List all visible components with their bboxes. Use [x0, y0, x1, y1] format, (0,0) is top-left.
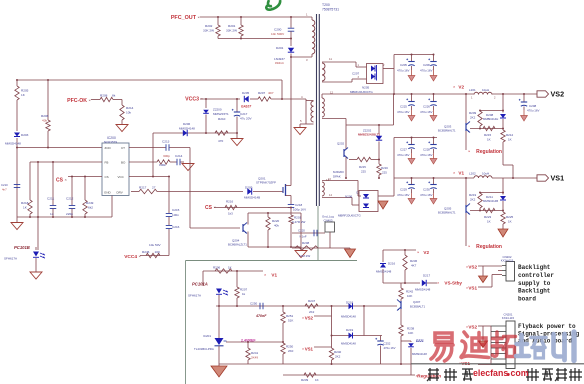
svg-text:N206: N206: [345, 195, 353, 199]
svg-text:MMSD4148: MMSD4148: [376, 270, 392, 274]
svg-text:#9414: #9414: [275, 61, 284, 65]
svg-text:0.47R 2W: 0.47R 2W: [292, 220, 306, 224]
svg-text:C230: C230: [423, 188, 430, 192]
svg-text:V1: V1: [458, 171, 464, 176]
svg-text:R246: R246: [142, 250, 150, 254]
svg-text:6k2: 6k2: [88, 206, 93, 210]
svg-text:27: 27: [152, 186, 156, 190]
svg-text:R214: R214: [126, 106, 134, 110]
svg-text:R201: R201: [294, 216, 302, 220]
svg-text:MMSD4148: MMSD4148: [341, 342, 356, 346]
svg-text:CS: CS: [56, 178, 64, 184]
svg-text:IC201: IC201: [203, 334, 211, 338]
svg-text:R206: R206: [213, 266, 221, 270]
svg-text:R205: R205: [21, 89, 29, 93]
svg-text:40k: 40k: [274, 224, 279, 228]
svg-text:100: 100: [155, 250, 160, 254]
svg-text:Regulation: Regulation: [476, 149, 502, 155]
svg-text:D218: D218: [346, 301, 354, 305]
svg-text:Q207: Q207: [413, 300, 421, 304]
svg-text:51K: 51K: [288, 319, 293, 323]
svg-text:BC858ALT1: BC858ALT1: [410, 305, 425, 309]
svg-text:R208: R208: [302, 241, 310, 245]
svg-text:KX24-115: KX24-115: [502, 316, 515, 320]
svg-text:10u 50V: 10u 50V: [149, 243, 161, 247]
svg-text:MMBD414H: MMBD414H: [483, 117, 498, 121]
svg-text:R202: R202: [205, 24, 213, 28]
svg-text:C252: C252: [384, 342, 391, 346]
svg-text:470nF: 470nF: [255, 314, 267, 318]
svg-text:L201: L201: [469, 88, 476, 92]
svg-text:10K: 10K: [407, 294, 412, 298]
svg-text:100n: 100n: [172, 213, 179, 217]
svg-text:PC101B: PC101B: [14, 245, 30, 250]
svg-text:VS-Stby: VS-Stby: [444, 281, 462, 286]
svg-text:Regulation: Regulation: [476, 244, 502, 250]
svg-text:GND: GND: [104, 191, 112, 195]
svg-text:R208: R208: [100, 94, 108, 98]
svg-text:MMSD4148: MMSD4148: [341, 315, 356, 319]
svg-text:8k: 8k: [112, 94, 116, 98]
svg-text:VS2: VS2: [305, 316, 314, 321]
svg-text:×: ×: [302, 347, 304, 351]
svg-text:43k: 43k: [42, 119, 47, 123]
svg-text:CT: CT: [121, 146, 125, 150]
svg-text:2K2: 2K2: [309, 310, 315, 314]
svg-text:R215: R215: [484, 133, 492, 137]
svg-text:BC868ALZLT1: BC868ALZLT1: [228, 243, 247, 247]
svg-text:VCC: VCC: [118, 175, 125, 179]
svg-text:C229: C229: [400, 188, 407, 192]
svg-text:CS: CS: [205, 205, 213, 211]
svg-text:BO: BO: [121, 161, 126, 165]
svg-text:470u 16V: 470u 16V: [420, 193, 432, 197]
svg-text:MBRF20U60CTG: MBRF20U60CTG: [338, 214, 362, 218]
svg-text:elecfans: elecfans: [473, 368, 508, 378]
svg-text:supply to: supply to: [518, 280, 551, 287]
svg-text:10uH: 10uH: [482, 88, 489, 92]
svg-text:10M 2W: 10M 2W: [299, 254, 310, 258]
svg-text:MMSD4148: MMSD4148: [412, 352, 427, 356]
svg-text:C205: C205: [400, 63, 407, 67]
svg-text:MMSD414B: MMSD414B: [244, 196, 260, 200]
svg-text:D221: D221: [416, 339, 424, 343]
svg-text:C216: C216: [172, 225, 180, 229]
svg-text:R238: R238: [407, 327, 415, 331]
svg-text:CN403: CN403: [324, 219, 333, 223]
svg-text:11: 11: [329, 57, 332, 61]
svg-text:100k: 100k: [159, 163, 166, 167]
svg-text:board: board: [518, 296, 536, 303]
svg-text:10n 500V: 10n 500V: [271, 32, 285, 36]
svg-text:D206: D206: [183, 122, 191, 126]
svg-text:L202: L202: [469, 172, 476, 176]
svg-text:MMSD4148: MMSD4148: [5, 142, 21, 146]
svg-text:R249: R249: [86, 201, 94, 205]
svg-text:D203: D203: [21, 133, 29, 137]
svg-text:4K7: 4K7: [411, 264, 417, 268]
svg-text:R216: R216: [226, 200, 234, 204]
svg-text:470u 16V: 470u 16V: [397, 110, 409, 114]
svg-text:BC858WALT1: BC858WALT1: [438, 129, 456, 133]
svg-text:VS1: VS1: [468, 286, 477, 291]
svg-text:DPAK: DPAK: [333, 175, 341, 179]
svg-text:225: 225: [382, 171, 387, 175]
svg-text:R209: R209: [469, 111, 477, 115]
svg-text:2K2: 2K2: [335, 355, 341, 359]
svg-text:R217: R217: [139, 186, 147, 190]
svg-text:R242: R242: [406, 290, 414, 294]
svg-text:MJD200: MJD200: [333, 170, 344, 174]
svg-text:V2: V2: [423, 250, 429, 255]
svg-text:CS: CS: [105, 175, 109, 179]
svg-text:470u 16V: 470u 16V: [420, 153, 432, 157]
svg-text:14: 14: [326, 178, 330, 182]
svg-text:MMBZ5242BLT1: MMBZ5242BLT1: [358, 133, 381, 137]
svg-text:1K: 1K: [487, 220, 491, 224]
svg-text:D219: D219: [346, 328, 354, 332]
svg-text:1n: 1n: [50, 212, 54, 216]
svg-text:Backlight: Backlight: [518, 288, 551, 295]
svg-text:2.4VREF: 2.4VREF: [241, 339, 256, 343]
svg-text:MMSD4148: MMSD4148: [179, 127, 195, 131]
svg-text:Signal-processing: Signal-processing: [518, 330, 580, 337]
svg-text:R219: R219: [469, 193, 477, 197]
svg-text:R212: R212: [506, 133, 514, 137]
svg-text:Flyback power to: Flyback power to: [518, 323, 576, 330]
svg-text:33K 2W: 33K 2W: [203, 29, 214, 33]
svg-text:2K49: 2K49: [251, 356, 258, 360]
svg-text:R250: R250: [286, 345, 294, 349]
svg-text:VS1: VS1: [305, 347, 314, 352]
svg-text:ZCD: ZCD: [105, 146, 112, 150]
svg-text:R215: R215: [359, 165, 366, 169]
svg-text:C220: C220: [298, 229, 305, 233]
svg-text:12: 12: [330, 91, 334, 95]
svg-text:470u 16V: 470u 16V: [384, 346, 396, 350]
svg-text:MMSZ15T1: MMSZ15T1: [213, 112, 229, 116]
svg-text:VS2: VS2: [551, 90, 565, 99]
svg-text:C208: C208: [529, 104, 537, 108]
svg-text:300p: 300p: [163, 154, 170, 158]
svg-text:PFC-OK: PFC-OK: [67, 98, 87, 104]
svg-text:com: com: [511, 368, 529, 378]
svg-text:1k: 1k: [242, 292, 246, 296]
svg-text:D216: D216: [388, 262, 396, 266]
svg-text:VCC3: VCC3: [185, 97, 199, 103]
svg-text:225: 225: [361, 170, 366, 174]
svg-text:R247: R247: [308, 299, 316, 303]
svg-text:C226: C226: [423, 105, 430, 109]
svg-text:×: ×: [302, 316, 304, 320]
svg-text:VS2: VS2: [468, 265, 477, 270]
svg-text:R223: R223: [484, 215, 492, 219]
svg-text:470u 16V: 470u 16V: [397, 193, 409, 197]
svg-text:100p 1KV: 100p 1KV: [293, 208, 306, 212]
svg-text:R239: R239: [301, 378, 309, 382]
svg-text:C215: C215: [172, 208, 180, 212]
svg-text:470: 470: [218, 139, 223, 143]
svg-text:R218: R218: [21, 201, 29, 205]
svg-text:FB: FB: [105, 161, 109, 165]
svg-text:STP9NK70ZFP: STP9NK70ZFP: [256, 181, 276, 185]
svg-text:33K 2W: 33K 2W: [226, 29, 237, 33]
svg-text:1K: 1K: [315, 378, 319, 382]
svg-text:C225: C225: [400, 105, 407, 109]
svg-text:2K0: 2K0: [288, 349, 294, 353]
svg-text:10k: 10k: [126, 111, 131, 115]
svg-text:VS1: VS1: [551, 174, 565, 183]
svg-text:TL431BCLPRA: TL431BCLPRA: [194, 347, 214, 351]
svg-text:C210: C210: [1, 183, 8, 187]
svg-text:1K: 1K: [228, 266, 232, 270]
svg-text:C213: C213: [162, 140, 170, 144]
svg-text:C217: C217: [240, 112, 248, 116]
svg-text:1K: 1K: [508, 138, 512, 142]
svg-text:R220: R220: [272, 219, 280, 223]
svg-text:×: ×: [466, 265, 468, 269]
svg-text:SFH617A: SFH617A: [188, 294, 201, 298]
svg-text:D205: D205: [242, 91, 250, 95]
svg-text:V2: V2: [458, 85, 464, 90]
svg-text:KX24-015: KX24-015: [501, 259, 514, 263]
svg-text:×: ×: [466, 325, 468, 329]
svg-text:PFC_OUT: PFC_OUT: [171, 15, 197, 21]
svg-text:470u 16V: 470u 16V: [420, 69, 432, 73]
svg-text:4D7: 4D7: [268, 91, 274, 95]
svg-text:470u 16V: 470u 16V: [397, 153, 409, 157]
svg-text:R201: R201: [228, 24, 236, 28]
svg-text:C206: C206: [423, 63, 430, 67]
svg-text:D217: D217: [423, 274, 431, 278]
svg-text:V1: V1: [271, 273, 277, 278]
svg-text:D201: D201: [276, 46, 284, 50]
svg-text:R206: R206: [41, 114, 49, 118]
svg-text:R216: R216: [381, 166, 388, 170]
svg-text:C214: C214: [175, 154, 183, 158]
svg-text:220p: 220p: [66, 212, 73, 216]
svg-text:T200: T200: [322, 3, 330, 7]
svg-text:C227: C227: [400, 148, 407, 152]
svg-text:MMSD414B: MMSD414B: [483, 199, 498, 203]
svg-text:2K2: 2K2: [470, 116, 476, 120]
svg-text:D209: D209: [245, 186, 253, 190]
svg-text:C228: C228: [423, 148, 430, 152]
svg-text:R251: R251: [286, 314, 294, 318]
svg-text:1k3: 1k3: [228, 212, 233, 216]
svg-text:C211: C211: [47, 197, 54, 201]
svg-text:1K: 1K: [487, 138, 491, 142]
svg-text:DRV: DRV: [117, 191, 123, 195]
svg-text:C212: C212: [66, 197, 74, 201]
svg-text:VS2: VS2: [468, 325, 477, 330]
svg-text:C218: C218: [295, 203, 303, 207]
svg-text:4n7: 4n7: [2, 188, 7, 192]
svg-text:R241: R241: [251, 351, 259, 355]
svg-text:C207: C207: [352, 72, 360, 76]
svg-text:Y 1nF: Y 1nF: [299, 235, 307, 239]
svg-text:2K2: 2K2: [470, 198, 476, 202]
svg-text:controller: controller: [518, 272, 554, 279]
svg-text:10uH: 10uH: [482, 172, 489, 176]
svg-text:R240: R240: [334, 350, 342, 354]
svg-text:R236: R236: [410, 259, 418, 263]
svg-text:1K: 1K: [508, 220, 512, 224]
svg-text:10K: 10K: [408, 331, 413, 335]
svg-text:470u 16V: 470u 16V: [527, 109, 539, 113]
svg-text:×: ×: [466, 286, 468, 290]
svg-text:VCC4: VCC4: [124, 254, 137, 260]
svg-text:MBRF20U60CTG: MBRF20U60CTG: [350, 90, 374, 94]
svg-text:SFH617A: SFH617A: [4, 257, 17, 261]
svg-text:MMSD4148: MMSD4148: [415, 288, 431, 292]
svg-text:R207: R207: [258, 91, 266, 95]
svg-text:R225: R225: [506, 215, 514, 219]
svg-text:750875731: 750875731: [322, 8, 339, 12]
svg-text:R210: R210: [218, 117, 226, 121]
svg-text:47u 20V: 47u 20V: [240, 117, 252, 121]
svg-text:NCP1579: NCP1579: [104, 140, 117, 144]
svg-text:C250: C250: [250, 302, 258, 306]
svg-text:GA107: GA107: [241, 105, 251, 109]
svg-text:BC858WALT1: BC858WALT1: [438, 211, 456, 215]
svg-text:PC101A: PC101A: [192, 282, 208, 287]
svg-text:Q202: Q202: [337, 142, 344, 146]
svg-text:470u 16V: 470u 16V: [397, 69, 409, 73]
svg-text:Backlight: Backlight: [518, 264, 551, 271]
svg-text:470u 16V: 470u 16V: [420, 110, 432, 114]
svg-text:R207: R207: [240, 288, 248, 292]
